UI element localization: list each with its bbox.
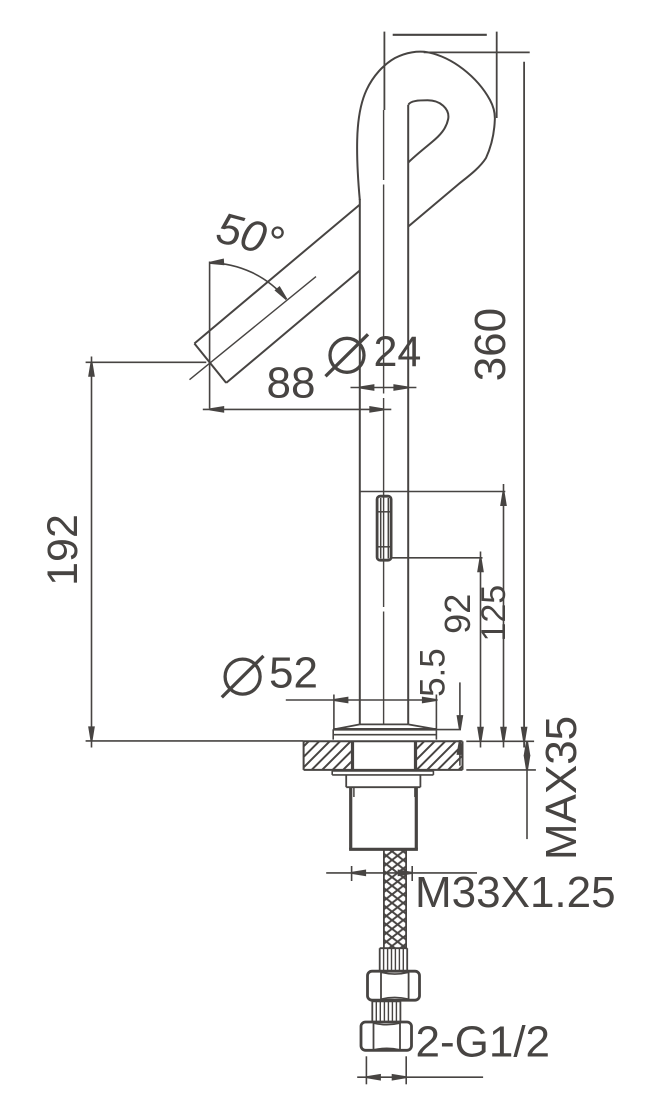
dim 2-G1/2: [365, 1056, 367, 1084]
dim O52: [286, 699, 438, 701]
spacer block: [345, 775, 347, 787]
handle lever: [377, 496, 391, 560]
svg-text:125: 125: [475, 585, 513, 642]
svg-text:360: 360: [466, 308, 515, 381]
base dome shoulders: [360, 723, 408, 725]
countertop section: [304, 741, 351, 770]
svg-text:50°: 50°: [211, 203, 288, 268]
dim 50 deg: [209, 262, 211, 409]
diameter symbol O24: [330, 338, 364, 372]
svg-text:52: 52: [269, 648, 318, 697]
svg-text:M33X1.25: M33X1.25: [415, 868, 616, 917]
ribbed collar 2: [372, 1001, 400, 1003]
riser left edge: [359, 199, 361, 724]
dim 360: [424, 51, 530, 53]
mounting nut: [349, 787, 352, 849]
dim 125: [360, 491, 506, 493]
svg-text:MAX35: MAX35: [537, 716, 586, 860]
svg-text:2-G1/2: 2-G1/2: [416, 1018, 551, 1067]
dim 88: [203, 408, 391, 410]
dim M33X1.25: [326, 872, 477, 874]
svg-text:5.5: 5.5: [414, 648, 453, 697]
svg-text:92: 92: [437, 594, 478, 634]
dim MAX35: [466, 740, 534, 742]
flange plate: [333, 728, 437, 731]
top dimension line: [393, 34, 487, 36]
spout centerline: [190, 277, 317, 380]
spout lower edge: [226, 271, 360, 383]
dim O24: [351, 387, 417, 389]
spout upper edge: [194, 205, 359, 344]
riser centerline: [383, 110, 385, 724]
braided hose: [384, 849, 406, 948]
dim 92: [391, 557, 482, 559]
hex nut 2: [361, 1022, 412, 1050]
svg-text:24: 24: [374, 328, 422, 376]
inner loop teardrop: [408, 100, 448, 162]
hole edges: [351, 741, 354, 770]
diameter symbol O52: [225, 659, 260, 694]
hex nut 1: [368, 971, 420, 1000]
outer loop curve: [357, 52, 495, 227]
dim 192: [86, 361, 207, 363]
washer under counter: [332, 770, 433, 772]
dim 5.5: [459, 682, 461, 729]
riser right edge: [407, 105, 409, 724]
spout end cap: [194, 344, 226, 383]
svg-text:192: 192: [39, 514, 87, 586]
ribbed collar 1: [380, 947, 408, 949]
svg-text:88: 88: [267, 359, 316, 408]
